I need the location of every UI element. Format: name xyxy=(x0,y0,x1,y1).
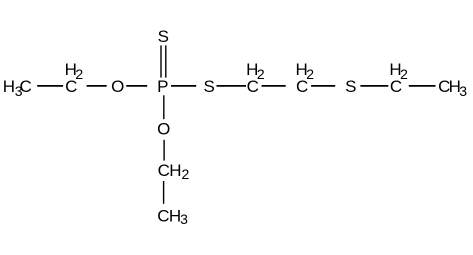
atom label S (thione sulfur, top) xyxy=(158,27,169,46)
atom label C (second CH2 carbon) xyxy=(247,77,259,96)
bond P-O (vertical) xyxy=(163,95,165,119)
bond P-S (main row) xyxy=(171,85,196,87)
atom label C (first CH2 carbon) xyxy=(65,77,77,96)
H2 label above fourth CH2 xyxy=(389,60,408,82)
svg-text:O: O xyxy=(157,120,170,139)
bond S-CH2 (right ethyl) xyxy=(360,85,388,87)
atom label S (thioether sulfur) xyxy=(345,77,356,96)
atom label CH2 (lower ethyl) xyxy=(158,161,190,182)
svg-text:2: 2 xyxy=(75,66,83,82)
svg-text:2: 2 xyxy=(306,66,314,82)
atom label S (thiolate sulfur, main row) xyxy=(204,77,215,96)
svg-text:H: H xyxy=(3,77,15,96)
double bond P=S xyxy=(161,45,166,77)
svg-text:H: H xyxy=(169,161,181,180)
atom label CH3 (lower ethyl terminal) xyxy=(157,206,188,227)
bond CH2-O xyxy=(87,85,107,87)
svg-text:2: 2 xyxy=(257,66,265,82)
atom label CH3 (right methyl) xyxy=(438,77,467,99)
svg-text:C: C xyxy=(20,77,32,96)
H2 label above second CH2 xyxy=(246,60,265,82)
svg-text:C: C xyxy=(158,161,170,180)
H2 label above first CH2 xyxy=(65,60,84,82)
bond CH2-CH2 xyxy=(262,85,286,87)
bond CH2-CH3 (right methyl) xyxy=(409,85,436,87)
svg-text:2: 2 xyxy=(182,166,190,182)
svg-text:S: S xyxy=(158,27,169,46)
svg-text:P: P xyxy=(157,77,168,96)
atom label P (phosphorus) xyxy=(157,77,168,96)
svg-text:C: C xyxy=(157,206,169,225)
svg-text:S: S xyxy=(345,77,356,96)
atom label O (ester oxygen, main row) xyxy=(111,77,124,96)
H2 label above third CH2 xyxy=(296,60,315,82)
svg-text:O: O xyxy=(111,77,124,96)
atom label O (lower ester oxygen) xyxy=(157,120,170,139)
bond CH2-S xyxy=(311,85,335,87)
bond CH2-CH3 (vertical) xyxy=(163,181,165,204)
bond H3C-CH2 xyxy=(37,85,63,87)
atom label H3C (left methyl) xyxy=(3,77,32,99)
bond S-CH2 xyxy=(217,85,247,87)
svg-text:2: 2 xyxy=(400,66,408,82)
atom label C (third CH2 carbon) xyxy=(296,77,308,96)
bond O-P xyxy=(126,85,147,87)
bond O-CH2 (vertical) xyxy=(163,140,165,161)
svg-text:3: 3 xyxy=(180,211,188,227)
svg-text:3: 3 xyxy=(459,83,467,99)
atom label C (fourth CH2 carbon) xyxy=(390,77,402,96)
svg-text:S: S xyxy=(204,77,215,96)
